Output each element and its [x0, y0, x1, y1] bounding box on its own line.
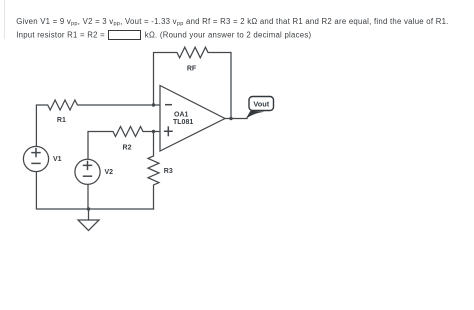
- svg-text:TL081: TL081: [173, 119, 193, 126]
- svg-text:OA1: OA1: [174, 111, 189, 118]
- svg-text:V2: V2: [105, 169, 114, 176]
- svg-text:V1: V1: [53, 156, 62, 163]
- svg-text:R3: R3: [164, 168, 173, 175]
- svg-text:R1: R1: [57, 117, 66, 124]
- svg-text:R2: R2: [123, 144, 132, 151]
- svg-text:RF: RF: [187, 66, 197, 73]
- svg-text:Vout: Vout: [253, 99, 269, 108]
